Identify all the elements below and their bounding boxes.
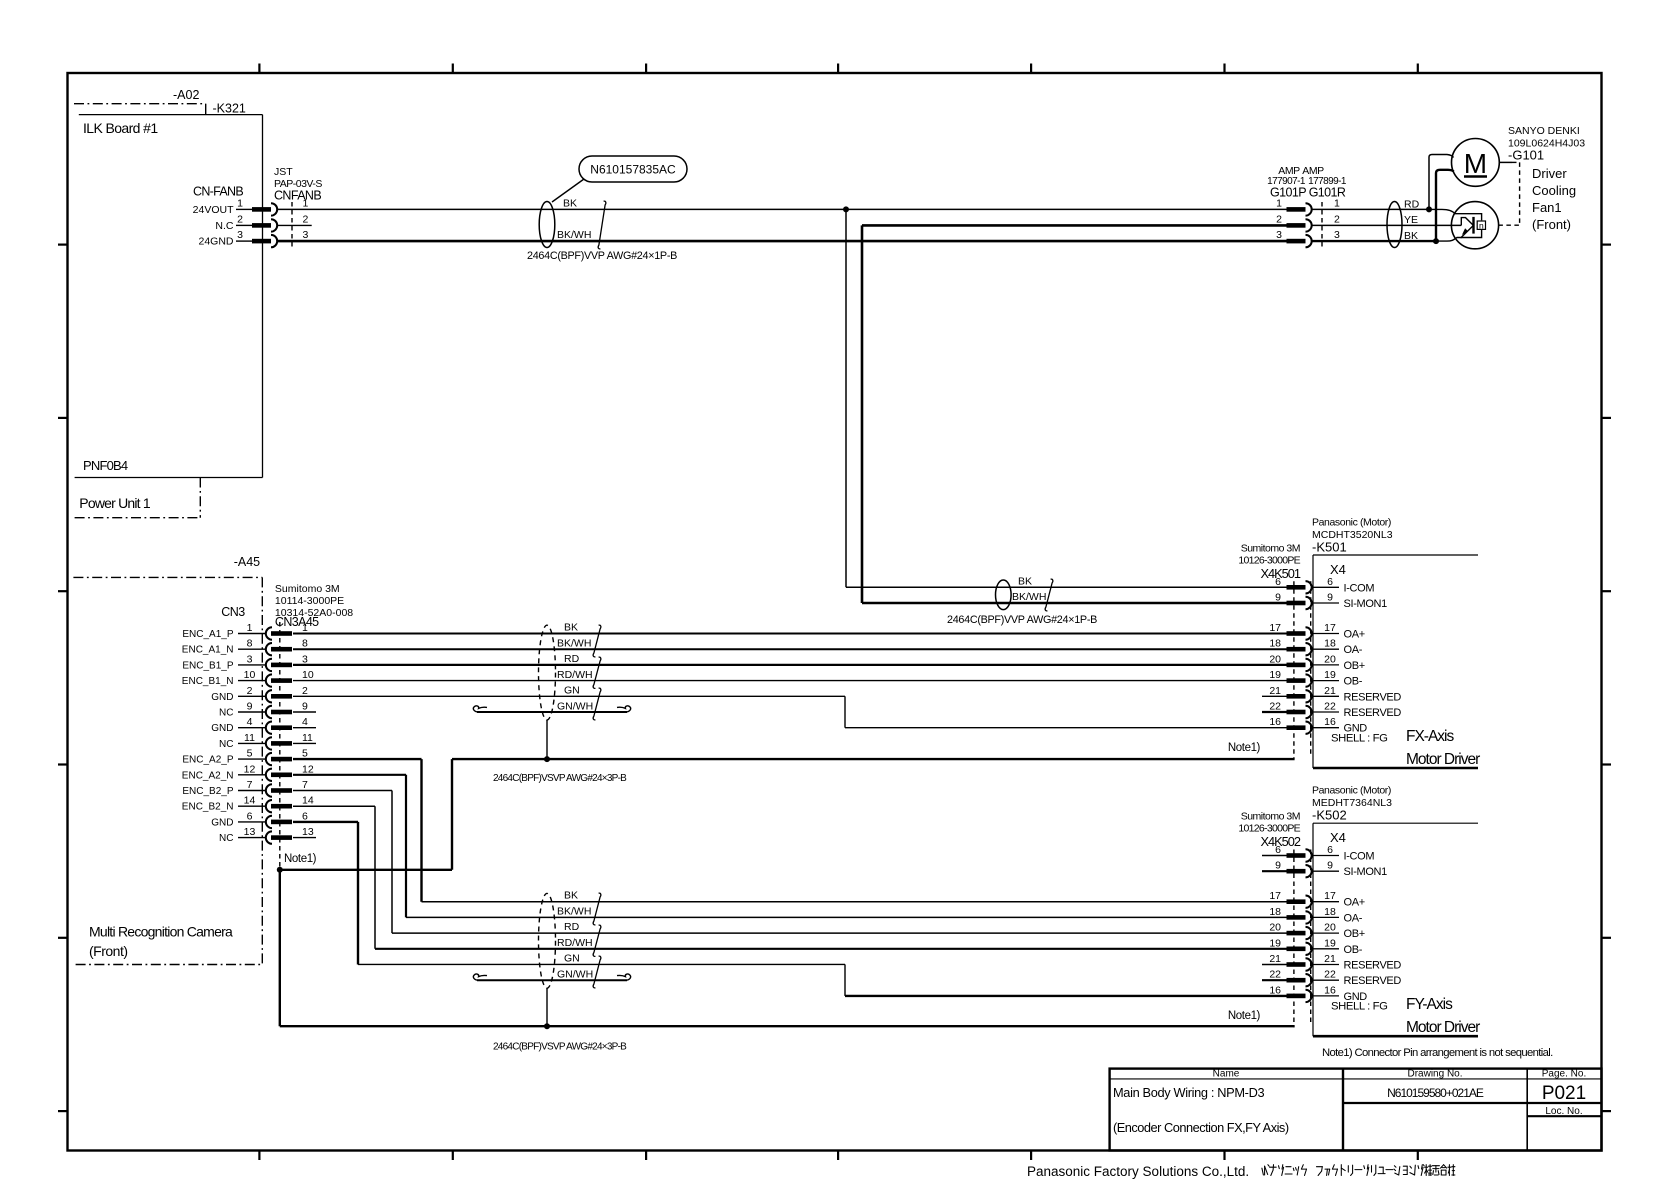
wire ENC_A2_P <box>293 758 422 760</box>
svg-text:BK: BK <box>564 622 578 634</box>
svg-text:OA+: OA+ <box>1344 897 1365 909</box>
svg-text:24VOUT: 24VOUT <box>193 204 234 216</box>
svg-text:(Front): (Front) <box>1532 217 1571 232</box>
svg-text:(Encoder Connection FX,FY Axis: (Encoder Connection FX,FY Axis) <box>1113 1120 1289 1135</box>
wires to fan <box>1311 208 1429 210</box>
svg-text:Loc. No.: Loc. No. <box>1545 1106 1582 1117</box>
motor to dashed outline <box>1499 161 1512 163</box>
svg-text:GN: GN <box>564 953 580 965</box>
svg-text:13: 13 <box>302 826 314 838</box>
svg-text:17: 17 <box>1324 622 1336 634</box>
svg-text:3: 3 <box>302 653 308 665</box>
svg-text:6: 6 <box>1275 844 1281 856</box>
svg-text:22: 22 <box>1324 969 1336 981</box>
Power Unit 1 boundary <box>199 478 201 518</box>
svg-text:9: 9 <box>302 701 308 713</box>
svg-text:3: 3 <box>1276 229 1282 241</box>
svg-text:Note1): Note1) <box>1228 742 1261 754</box>
svg-text:2464C(BPF)VVP AWG#24×1P-B: 2464C(BPF)VVP AWG#24×1P-B <box>527 250 677 262</box>
svg-text:Power Unit 1: Power Unit 1 <box>79 495 151 511</box>
cable shield oval (fan cable left) <box>539 202 555 248</box>
G101 mating line <box>1321 202 1323 248</box>
module boundary -A02 <box>74 103 206 105</box>
wire GN/WH cut segment FY <box>473 974 487 980</box>
svg-text:BK/WH: BK/WH <box>1012 591 1046 603</box>
junction BK <box>1433 238 1439 244</box>
svg-text:OB+: OB+ <box>1344 660 1365 672</box>
BK branch up to motor <box>1436 170 1454 241</box>
ILK Board #1 box <box>79 114 263 116</box>
svg-text:9: 9 <box>1275 860 1281 872</box>
svg-text:19: 19 <box>1269 669 1281 681</box>
svg-text:20: 20 <box>1269 653 1281 665</box>
svg-text:10: 10 <box>302 669 314 681</box>
svg-text:Motor Driver: Motor Driver <box>1406 1019 1480 1036</box>
svg-text:12: 12 <box>244 763 256 775</box>
svg-text:BK/WH: BK/WH <box>557 906 591 918</box>
FX cable shield oval <box>539 625 556 720</box>
svg-text:6: 6 <box>1327 576 1333 588</box>
svg-text:X4: X4 <box>1330 562 1346 577</box>
svg-text:NC: NC <box>219 833 233 844</box>
svg-text:7: 7 <box>302 779 308 791</box>
RD branch up to motor <box>1429 155 1454 210</box>
svg-text:OB-: OB- <box>1344 676 1363 688</box>
svg-text:2464C(BPF)VSVP AWG#24×3P-B: 2464C(BPF)VSVP AWG#24×3P-B <box>493 773 627 784</box>
svg-text:I-COM: I-COM <box>1344 851 1375 863</box>
svg-text:21: 21 <box>1269 685 1281 697</box>
wire GN/WH cut segment <box>473 706 487 712</box>
svg-text:-A45: -A45 <box>234 555 260 569</box>
FX cable drain wire <box>546 720 548 759</box>
frame ruler ticks left/right <box>58 244 68 246</box>
svg-text:RESERVED: RESERVED <box>1344 691 1402 703</box>
branch YE down to X4K501-9 <box>861 225 864 603</box>
svg-text:GND: GND <box>211 817 233 828</box>
footer japanese company name (drawn strokes) <box>1262 1165 1455 1176</box>
svg-text:11: 11 <box>244 732 255 744</box>
wire ENC_A1_P BK <box>293 633 1287 635</box>
svg-text:ENC_B1_N: ENC_B1_N <box>182 676 234 687</box>
svg-text:3: 3 <box>303 229 309 241</box>
svg-text:OA-: OA- <box>1344 644 1363 656</box>
svg-text:GN/WH: GN/WH <box>557 701 593 713</box>
svg-text:RESERVED: RESERVED <box>1344 960 1402 972</box>
svg-text:FY-Axis: FY-Axis <box>1406 996 1453 1013</box>
svg-text:1: 1 <box>302 622 308 634</box>
shield junction at CN3A45 <box>277 867 283 873</box>
CN3A45 mating line <box>279 622 281 870</box>
svg-text:21: 21 <box>1269 953 1281 965</box>
svg-text:3: 3 <box>247 653 253 665</box>
svg-text:6: 6 <box>1275 576 1281 588</box>
svg-text:n: n <box>1479 221 1484 231</box>
svg-text:NC: NC <box>219 739 233 750</box>
svg-text:2464C(BPF)VSVP AWG#24×3P-B: 2464C(BPF)VSVP AWG#24×3P-B <box>493 1042 627 1053</box>
svg-text:FX-Axis: FX-Axis <box>1406 728 1455 745</box>
svg-text:GND: GND <box>211 692 233 703</box>
svg-text:Cooling: Cooling <box>1532 183 1576 198</box>
X4K502 stubs pins 21 22 <box>1262 964 1287 966</box>
part number balloon N610157835AC <box>579 156 687 182</box>
svg-text:20: 20 <box>1324 922 1336 934</box>
svg-text:OA-: OA- <box>1344 912 1363 924</box>
svg-text:6: 6 <box>302 810 308 822</box>
svg-text:CN-FANB: CN-FANB <box>193 185 243 199</box>
svg-text:Panasonic Factory Solutions Co: Panasonic Factory Solutions Co.,Ltd. <box>1027 1164 1249 1179</box>
svg-text:CN3A45: CN3A45 <box>275 615 319 629</box>
RD into sensor IC top <box>1429 209 1482 220</box>
svg-text:16: 16 <box>1269 984 1281 996</box>
svg-text:Note1) Connector Pin arrangeme: Note1) Connector Pin arrangement is not … <box>1322 1047 1553 1059</box>
svg-text:OB+: OB+ <box>1344 928 1365 940</box>
svg-text:Name: Name <box>1213 1069 1240 1080</box>
svg-text:1: 1 <box>247 622 253 634</box>
svg-text:BK: BK <box>564 890 578 902</box>
svg-text:Sumitomo 3M: Sumitomo 3M <box>275 583 340 595</box>
svg-text:11: 11 <box>302 732 313 744</box>
svg-text:1: 1 <box>1334 197 1340 209</box>
svg-text:CNFANB: CNFANB <box>274 189 321 203</box>
svg-text:N610157835AC: N610157835AC <box>590 163 676 177</box>
svg-text:BK/WH: BK/WH <box>557 229 591 241</box>
FX twisted pair markers <box>593 625 601 657</box>
svg-text:JST: JST <box>274 166 293 178</box>
svg-text:22: 22 <box>1269 701 1281 713</box>
svg-text:X4: X4 <box>1330 830 1346 845</box>
svg-text:BK: BK <box>1404 230 1418 242</box>
svg-text:SHELL : FG: SHELL : FG <box>1331 1001 1387 1013</box>
svg-text:2: 2 <box>237 213 243 225</box>
svg-text:2: 2 <box>302 685 308 697</box>
svg-text:Sumitomo 3M: Sumitomo 3M <box>1241 543 1300 555</box>
svg-text:P021: P021 <box>1542 1083 1586 1104</box>
svg-text:YE: YE <box>1404 214 1418 226</box>
svg-text:-A02: -A02 <box>173 88 199 102</box>
svg-text:2: 2 <box>1276 213 1282 225</box>
svg-text:8: 8 <box>247 638 253 650</box>
svg-text:16: 16 <box>1324 984 1336 996</box>
svg-text:2464C(BPF)VVP AWG#24×1P-B: 2464C(BPF)VVP AWG#24×1P-B <box>947 614 1097 626</box>
svg-text:OA+: OA+ <box>1344 629 1365 641</box>
svg-text:10126-3000PE: 10126-3000PE <box>1238 555 1300 567</box>
wire 24GND BK/WH (CNFANB-3 to G101P-3) <box>278 240 1287 243</box>
junction RD <box>1426 206 1432 212</box>
svg-text:8: 8 <box>302 638 308 650</box>
svg-text:NC: NC <box>219 708 233 719</box>
svg-text:4: 4 <box>247 716 253 728</box>
svg-text:GN/WH: GN/WH <box>557 969 593 981</box>
svg-text:2: 2 <box>247 685 253 697</box>
branch BK down to X4K501-6 <box>845 209 847 587</box>
YE into sensor arrow <box>1461 218 1473 226</box>
svg-text:Driver: Driver <box>1532 166 1567 181</box>
svg-text:4: 4 <box>302 716 308 728</box>
motor circle <box>1452 139 1500 187</box>
wire ENC_A2_N <box>293 774 406 776</box>
svg-text:14: 14 <box>302 795 314 807</box>
svg-text:9: 9 <box>1275 592 1281 604</box>
X4K502 stubs pins 6 9 <box>1262 855 1287 857</box>
FY cable drain wire <box>546 988 548 1026</box>
frame ruler ticks top/bottom <box>258 64 260 74</box>
svg-text:18: 18 <box>1324 638 1336 650</box>
svg-text:3: 3 <box>1334 229 1340 241</box>
1P cable shield oval near X4K501 <box>996 580 1012 610</box>
svg-text:10114-3000PE: 10114-3000PE <box>275 595 344 607</box>
svg-text:1: 1 <box>303 197 309 209</box>
svg-text:9: 9 <box>1327 592 1333 604</box>
svg-text:6: 6 <box>247 810 253 822</box>
wire GND to X4K502-16 <box>293 821 358 823</box>
svg-text:20: 20 <box>1324 653 1336 665</box>
svg-text:5: 5 <box>247 748 253 760</box>
svg-text:BK: BK <box>1018 576 1032 588</box>
wire ENC_B1_P RD <box>293 664 1287 666</box>
svg-text:17: 17 <box>1324 890 1336 902</box>
sensor output arrow <box>1461 226 1474 238</box>
wire GND GN to X4K501-16 <box>293 695 845 697</box>
svg-text:7: 7 <box>247 779 253 791</box>
cable shield oval (fan cable right) <box>1387 202 1402 248</box>
svg-text:21: 21 <box>1324 685 1336 697</box>
svg-text:1: 1 <box>1276 197 1282 209</box>
junction on BK wire <box>843 206 849 212</box>
svg-text:Sumitomo 3M: Sumitomo 3M <box>1241 811 1300 823</box>
svg-text:RESERVED: RESERVED <box>1344 707 1402 719</box>
X4K501 mating lines <box>1293 581 1295 759</box>
svg-text:Note1): Note1) <box>284 853 317 865</box>
svg-text:6: 6 <box>1327 844 1333 856</box>
NC/GND stubs <box>293 711 316 713</box>
svg-text:12: 12 <box>302 763 314 775</box>
svg-text:19: 19 <box>1324 937 1336 949</box>
sensor n-box <box>1477 221 1485 229</box>
svg-text:17: 17 <box>1269 890 1281 902</box>
svg-text:22: 22 <box>1324 701 1336 713</box>
wire N.C stub (CNFANB-2) <box>278 224 312 226</box>
title block <box>1110 1069 1602 1151</box>
svg-text:Multi Recognition Camera: Multi Recognition Camera <box>89 924 233 940</box>
svg-text:-K501: -K501 <box>1312 540 1347 555</box>
svg-text:Motor Driver: Motor Driver <box>1406 751 1480 768</box>
CNFANB mating line <box>291 202 293 248</box>
svg-text:9: 9 <box>247 701 253 713</box>
svg-text:18: 18 <box>1324 906 1336 918</box>
svg-text:BK/WH: BK/WH <box>557 638 591 650</box>
svg-text:SANYO DENKI: SANYO DENKI <box>1508 125 1580 137</box>
svg-text:RD: RD <box>564 653 580 665</box>
svg-text:ENC_A1_N: ENC_A1_N <box>182 645 234 656</box>
svg-text:5: 5 <box>302 748 308 760</box>
svg-text:-G101: -G101 <box>1508 148 1544 163</box>
svg-text:GN: GN <box>564 685 580 697</box>
svg-text:2: 2 <box>303 213 309 225</box>
twisted pair marker <box>598 201 606 249</box>
svg-text:Panasonic (Motor): Panasonic (Motor) <box>1312 785 1391 797</box>
svg-text:CN3: CN3 <box>221 605 245 619</box>
svg-text:N.C: N.C <box>215 220 234 232</box>
motor driver -K501 box <box>1313 554 1478 556</box>
svg-text:16: 16 <box>1324 716 1336 728</box>
svg-text:-K321: -K321 <box>213 102 246 116</box>
svg-text:Panasonic (Motor): Panasonic (Motor) <box>1312 517 1391 529</box>
svg-text:18: 18 <box>1269 638 1281 650</box>
svg-text:16: 16 <box>1269 716 1281 728</box>
svg-text:BK: BK <box>563 198 577 210</box>
BK into sensor IC bottom <box>1436 229 1482 241</box>
motor driver -K502 box <box>1313 822 1478 824</box>
svg-text:24GND: 24GND <box>198 236 233 248</box>
svg-text:I-COM: I-COM <box>1344 582 1375 594</box>
svg-text:RD/WH: RD/WH <box>557 669 593 681</box>
svg-text:14: 14 <box>244 795 256 807</box>
svg-text:21: 21 <box>1324 953 1336 965</box>
svg-text:RD: RD <box>564 921 580 933</box>
svg-text:PNF0B4: PNF0B4 <box>83 458 128 473</box>
svg-text:RD/WH: RD/WH <box>557 937 593 949</box>
svg-text:19: 19 <box>1324 669 1336 681</box>
svg-text:OB-: OB- <box>1344 944 1363 956</box>
svg-text:GND: GND <box>211 723 233 734</box>
X4K501 stubs pins 21 22 <box>1262 695 1287 697</box>
svg-text:13: 13 <box>244 826 256 838</box>
svg-text:10: 10 <box>244 669 256 681</box>
sensor circle <box>1451 202 1498 249</box>
shield wire to X4K501 shell <box>280 869 452 871</box>
svg-text:10126-3000PE: 10126-3000PE <box>1238 823 1300 835</box>
svg-text:SI-MON1: SI-MON1 <box>1344 598 1388 610</box>
svg-text:17: 17 <box>1269 622 1281 634</box>
svg-text:9: 9 <box>1327 860 1333 872</box>
svg-text:M: M <box>1464 148 1487 179</box>
svg-text:N610159580+021AE: N610159580+021AE <box>1387 1086 1484 1100</box>
svg-text:20: 20 <box>1269 922 1281 934</box>
X4K502 mating lines <box>1293 850 1295 1028</box>
svg-text:ENC_A1_P: ENC_A1_P <box>182 629 233 640</box>
svg-text:RD: RD <box>1404 199 1420 211</box>
svg-text:ENC_B1_P: ENC_B1_P <box>182 660 233 671</box>
svg-text:2: 2 <box>1334 213 1340 225</box>
FY cable shield oval <box>539 893 556 988</box>
shield wire to X4K502 shell <box>279 870 281 1026</box>
wire 24VOUT BK (CNFANB-1 to G101P-1) <box>278 208 1287 210</box>
svg-text:ENC_A2_P: ENC_A2_P <box>182 755 233 766</box>
svg-text:Main Body Wiring : NPM-D3: Main Body Wiring : NPM-D3 <box>1113 1085 1264 1100</box>
wire ENC_A1_N BK/WH <box>293 648 1287 650</box>
svg-text:18: 18 <box>1269 906 1281 918</box>
svg-text:SI-MON1: SI-MON1 <box>1344 866 1388 878</box>
FY twisted pair markers <box>593 893 601 925</box>
svg-text:ENC_A2_N: ENC_A2_N <box>182 770 234 781</box>
svg-text:19: 19 <box>1269 937 1281 949</box>
svg-text:RESERVED: RESERVED <box>1344 975 1402 987</box>
svg-text:ENC_B2_N: ENC_B2_N <box>182 802 234 813</box>
svg-text:(Front): (Front) <box>89 943 128 959</box>
svg-text:Drawing No.: Drawing No. <box>1407 1069 1462 1080</box>
svg-text:Page. No.: Page. No. <box>1542 1069 1586 1080</box>
svg-text:22: 22 <box>1269 969 1281 981</box>
svg-text:G101R: G101R <box>1309 186 1346 200</box>
svg-text:SHELL : FG: SHELL : FG <box>1331 732 1387 744</box>
svg-text:Fan1: Fan1 <box>1532 200 1562 215</box>
svg-text:ENC_B2_P: ENC_B2_P <box>182 786 233 797</box>
svg-text:Note1): Note1) <box>1228 1010 1261 1022</box>
wire G101P-2 YE run from SI-MON1 branch <box>862 224 1287 227</box>
wire ENC_B2_N <box>293 805 375 807</box>
svg-text:-K502: -K502 <box>1312 808 1347 823</box>
wire ENC_B1_N RD/WH <box>293 680 1287 682</box>
svg-text:3: 3 <box>237 229 243 241</box>
wire ENC_B2_P <box>293 790 392 792</box>
svg-text:ILK Board #1: ILK Board #1 <box>83 120 158 136</box>
svg-text:1: 1 <box>237 197 243 209</box>
